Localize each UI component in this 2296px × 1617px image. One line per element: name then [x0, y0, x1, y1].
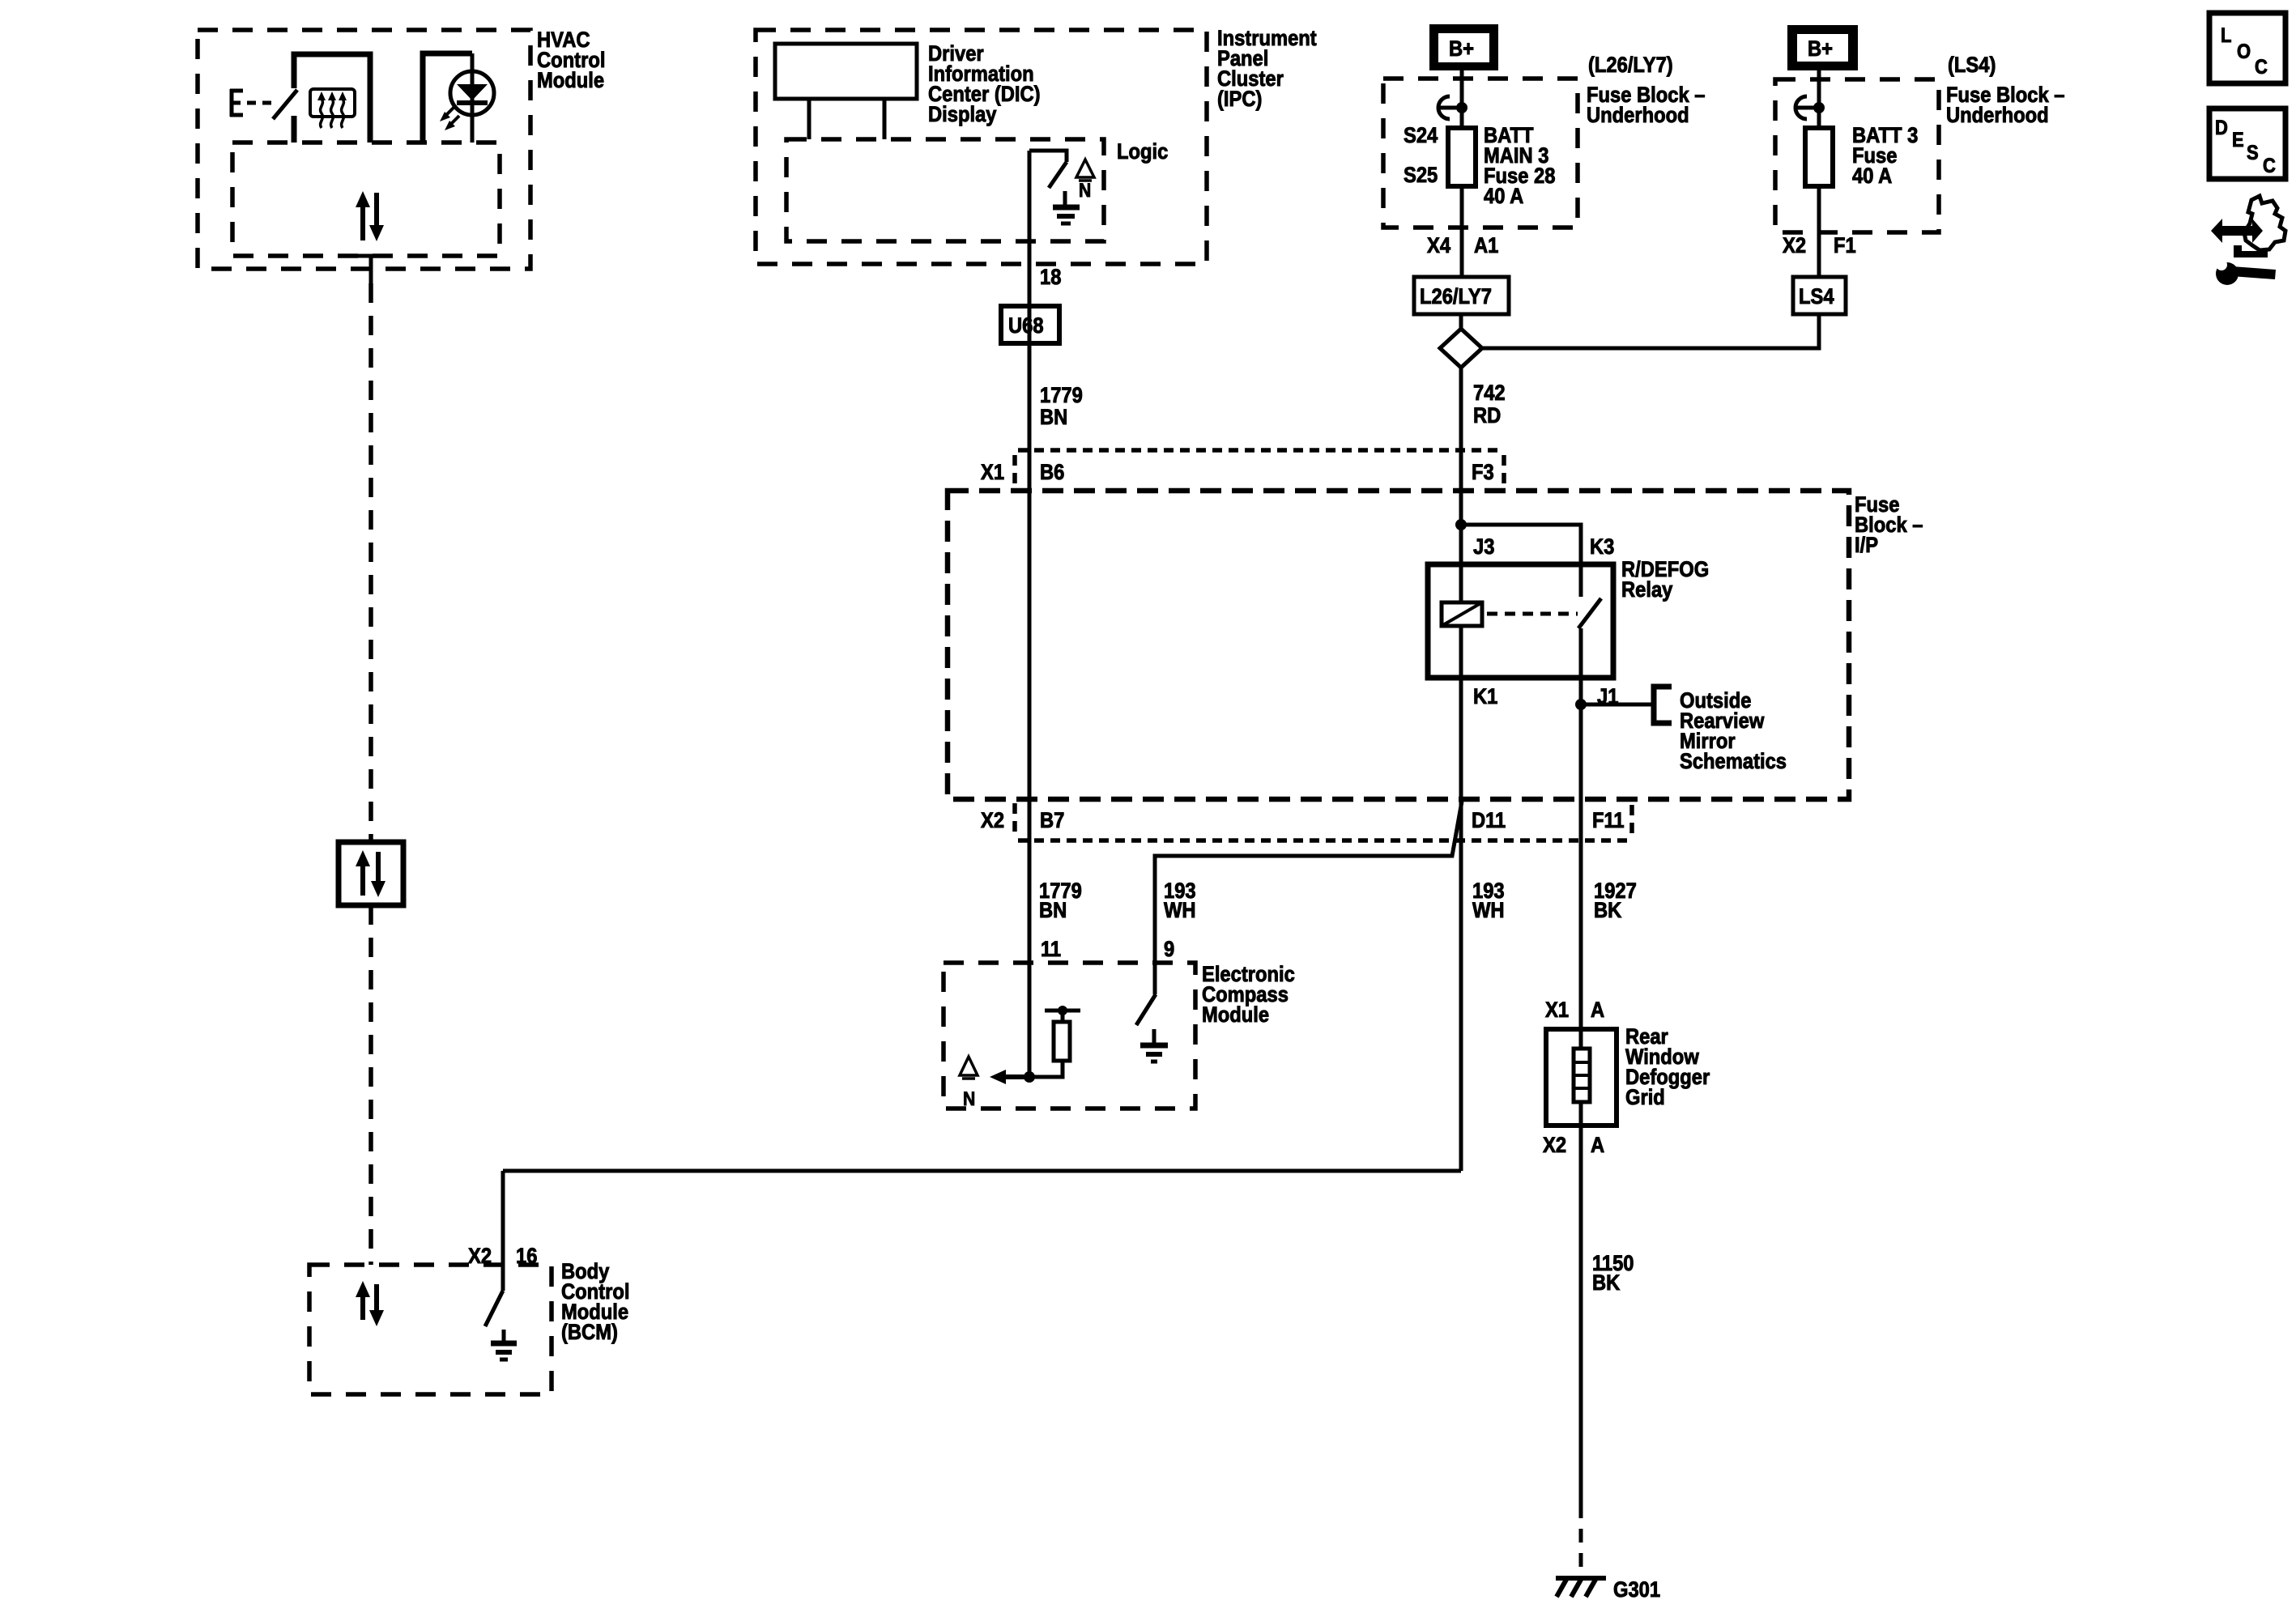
svg-text:D11: D11: [1472, 809, 1506, 833]
BCM switch blade: [485, 1291, 503, 1326]
connector clip S24: [1438, 96, 1467, 119]
label 742 RD: [1473, 381, 1506, 428]
svg-text:Grid: Grid: [1625, 1086, 1665, 1110]
resistor tap dot: [1058, 1006, 1067, 1015]
svg-text:Logic: Logic: [1117, 140, 1168, 164]
wire B+ to fuse (right): [1817, 70, 1821, 128]
B+ battery feed (left): [1429, 24, 1498, 70]
defogger switch terminal E: [230, 89, 243, 117]
svg-text:B7: B7: [1040, 809, 1064, 833]
connector tick right (F3): [1502, 455, 1506, 486]
service info icon arrow: [2211, 219, 2263, 243]
svg-text:Schematics: Schematics: [1680, 750, 1787, 774]
svg-text:F1: F1: [1834, 234, 1856, 258]
DIC display: [775, 44, 917, 99]
service info icon wrench: [2216, 259, 2276, 285]
connector LS4: [1793, 277, 1846, 314]
labels X2 16 (BCM): [468, 1245, 537, 1269]
svg-text:L26/LY7: L26/LY7: [1420, 285, 1492, 309]
svg-text:O: O: [2237, 40, 2251, 63]
svg-text:X2: X2: [1783, 234, 1806, 258]
Logic box: [786, 139, 1104, 241]
svg-text:(IPC): (IPC): [1217, 87, 1262, 112]
wire J1 lead 1927 BK: [1579, 628, 1583, 1049]
logic ground: [1053, 191, 1080, 223]
wire fuse to X4: [1460, 186, 1464, 277]
svg-text:L: L: [2221, 24, 2231, 47]
HVAC Control Module label: [537, 28, 605, 93]
LED light arrow 2: [445, 116, 459, 130]
fuse BATT MAIN 3: [1448, 128, 1476, 186]
LED diode triangle: [457, 84, 488, 100]
compass output arrow: [990, 1070, 1029, 1084]
label 1779 BN lower: [1039, 879, 1082, 923]
svg-text:X1: X1: [981, 461, 1004, 485]
wire 1779 BN: [1028, 151, 1032, 1077]
svg-text:Module: Module: [1202, 1003, 1269, 1028]
connector row X2/B7/D11/F11 fine dashed line: [1018, 838, 1632, 843]
svg-text:K3: K3: [1590, 535, 1614, 560]
label 193 WH (right): [1472, 879, 1505, 923]
wire fuse to X2 (right): [1817, 186, 1821, 277]
wire to mirror schematics: [1581, 703, 1653, 707]
Body Control Module box: [309, 1265, 552, 1394]
HVAC Control Module box: [198, 30, 530, 269]
svg-text:18: 18: [1040, 266, 1061, 290]
label 193 WH (left): [1164, 879, 1196, 923]
switch actuation dashes from E: [247, 101, 275, 105]
connector tick left (X2): [1012, 803, 1017, 836]
heat wavy arrow 1: [317, 91, 326, 128]
connector row X1/B6/F3 fine dashed line: [1018, 448, 1504, 453]
labels J3 K3: [1473, 535, 1614, 560]
Electronic Compass Module label: [1202, 963, 1295, 1028]
wire diamond to LS4: [1482, 314, 1819, 348]
svg-text:I/P: I/P: [1855, 534, 1878, 558]
svg-text:(L26/LY7): (L26/LY7): [1588, 53, 1673, 78]
svg-text:(LS4): (LS4): [1948, 53, 1996, 78]
wire B+ to fuse (left): [1460, 70, 1464, 128]
Rear Window Defogger Grid box: [1546, 1029, 1617, 1126]
svg-text:S25: S25: [1404, 164, 1438, 188]
label R/DEFOG Relay: [1621, 558, 1709, 602]
B+ battery feed (right): [1787, 25, 1858, 70]
BCM serial data arrows: [356, 1281, 384, 1326]
svg-text:Underhood: Underhood: [1946, 104, 2049, 128]
labels X1 B6 F3: [981, 461, 1494, 485]
svg-text:D: D: [2215, 117, 2228, 139]
svg-text:B6: B6: [1040, 461, 1064, 485]
label Fuse Block Underhood (left): [1587, 83, 1706, 128]
serial data wire dashed upper: [368, 283, 373, 842]
LED diode bar: [457, 100, 488, 105]
Electronic Compass Module box: [944, 963, 1195, 1108]
ground G301: [1556, 1578, 1606, 1597]
svg-text:E: E: [2232, 129, 2244, 151]
svg-text:C: C: [2263, 155, 2276, 177]
HVAC serial data arrows: [356, 191, 384, 241]
connector tick left (X1): [1012, 455, 1017, 486]
svg-text:B+: B+: [1808, 37, 1833, 62]
wire J3 to K3: [1461, 525, 1581, 597]
connector box arrows: [356, 850, 386, 897]
svg-text:B+: B+: [1449, 37, 1474, 62]
wire L26 to splice diamond: [1459, 314, 1463, 330]
svg-text:40 A: 40 A: [1484, 185, 1523, 209]
logic switch wiring: [1029, 151, 1067, 188]
label BATT MAIN 3 Fuse 28 40 A: [1484, 124, 1555, 209]
svg-text:C: C: [2255, 56, 2268, 79]
serial data wire dashed lower: [368, 905, 373, 1265]
svg-text:RD: RD: [1473, 404, 1501, 428]
grid heater element: [1574, 1049, 1590, 1102]
Fuse Block Underhood (right) box: [1775, 79, 1939, 232]
DIC display legs: [809, 99, 884, 139]
svg-text:Underhood: Underhood: [1587, 104, 1689, 128]
Fuse Block Underhood (left) box: [1383, 79, 1578, 228]
svg-text:Relay: Relay: [1621, 578, 1672, 602]
svg-text:11: 11: [1041, 938, 1061, 962]
svg-text:F11: F11: [1592, 809, 1625, 833]
junction dot compass: [1024, 1071, 1035, 1083]
wire 1150 BK dashed tail: [1579, 1504, 1583, 1569]
bottom wire to BCM: [503, 1171, 1461, 1291]
label 1150 BK: [1592, 1252, 1634, 1296]
label Rear Window Defogger Grid: [1625, 1025, 1710, 1110]
HVAC data stub: [357, 256, 384, 283]
labels X2 B7 D11 F11: [981, 809, 1625, 833]
off-page bracket: [1654, 687, 1672, 723]
svg-text:BN: BN: [1039, 899, 1067, 923]
svg-text:J3: J3: [1473, 535, 1494, 560]
LED wire: [471, 53, 475, 143]
defogger switch blade: [273, 90, 297, 119]
wire 742 RD: [1459, 368, 1463, 602]
R/DEFOG relay box: [1428, 564, 1613, 678]
label Fuse Block Underhood (right): [1946, 83, 2065, 128]
svg-text:K1: K1: [1473, 685, 1497, 709]
HVAC inner logic box: [232, 143, 500, 256]
svg-text:BN: BN: [1040, 406, 1067, 430]
wire grid to ground: [1579, 1102, 1583, 1504]
svg-text:S: S: [2247, 142, 2259, 164]
DIC label: [928, 42, 1041, 127]
svg-text:BK: BK: [1594, 899, 1622, 923]
relay actuation dashed link: [1487, 612, 1578, 616]
svg-text:1779: 1779: [1040, 384, 1083, 408]
relay switch blade: [1578, 598, 1601, 628]
connector L26/LY7: [1414, 277, 1509, 314]
svg-text:N: N: [1079, 180, 1091, 202]
north triangle (logic): [1076, 160, 1094, 201]
wire 193 WH branch jog to compass: [1155, 802, 1462, 994]
wire K1 lead (742 RD through coil to D11): [1459, 626, 1463, 1171]
svg-text:40 A: 40 A: [1852, 164, 1892, 189]
labels X1 A (grid top): [1545, 998, 1604, 1023]
labels X2 F1: [1783, 234, 1856, 258]
IPC label: [1217, 27, 1317, 112]
Fuse Block I/P box: [948, 491, 1849, 799]
heater enclosure stub: [292, 116, 297, 143]
connector U68: [1001, 306, 1059, 343]
compass resistor: [1054, 1022, 1070, 1061]
svg-text:Module: Module: [537, 69, 604, 93]
svg-text:9: 9: [1164, 938, 1174, 962]
svg-text:BK: BK: [1592, 1271, 1621, 1296]
Instrument Panel Cluster box: [756, 30, 1207, 264]
svg-text:F3: F3: [1472, 461, 1494, 485]
svg-text:X2: X2: [981, 809, 1004, 833]
svg-text:(BCM): (BCM): [561, 1321, 618, 1345]
heat wavy arrow 3: [339, 91, 347, 128]
LED indicator enclosure: [423, 53, 472, 143]
svg-text:N: N: [963, 1088, 975, 1110]
svg-text:X4: X4: [1427, 234, 1450, 258]
serial data connector box: [339, 842, 403, 905]
LED circle: [450, 71, 494, 115]
svg-text:742: 742: [1473, 381, 1506, 406]
svg-text:X2: X2: [1543, 1134, 1566, 1158]
BCM label: [561, 1260, 629, 1345]
junction node J1: [1575, 699, 1587, 710]
BCM ground: [491, 1330, 517, 1360]
fuse BATT 3: [1805, 128, 1833, 186]
svg-text:Display: Display: [928, 103, 996, 127]
svg-text:A: A: [1591, 998, 1604, 1023]
heater enclosure: [294, 54, 370, 143]
heat wavy arrow 2: [328, 91, 336, 128]
compass ground: [1140, 1029, 1168, 1062]
svg-text:WH: WH: [1164, 899, 1196, 923]
LOC icon: [2209, 13, 2285, 83]
labels K1 J1: [1473, 685, 1618, 709]
label 1779 BN upper: [1040, 384, 1083, 430]
service info icon bracket: [2234, 245, 2268, 257]
label Fuse Block I/P: [1855, 493, 1923, 558]
connector clip (right): [1795, 96, 1825, 119]
label Outside Rearview Mirror Schematics: [1680, 689, 1787, 774]
resistor bottom lead: [1029, 1061, 1063, 1077]
label BATT 3 Fuse 40 A: [1852, 124, 1918, 189]
connector tick right (F11): [1629, 805, 1634, 836]
labels X4 A1: [1427, 234, 1498, 258]
junction node J3: [1455, 519, 1467, 530]
north triangle (compass): [960, 1057, 978, 1109]
resistor top tap: [1045, 1011, 1080, 1022]
svg-text:U68: U68: [1008, 314, 1044, 338]
labels X2 A (grid bottom): [1543, 1134, 1604, 1158]
svg-text:A1: A1: [1474, 234, 1498, 258]
relay coil: [1442, 602, 1482, 626]
LED light arrow 1: [440, 107, 454, 121]
svg-text:LS4: LS4: [1799, 285, 1834, 309]
svg-text:A: A: [1591, 1134, 1604, 1158]
splice diamond: [1440, 329, 1482, 368]
service info icon mitt: [2244, 196, 2285, 250]
svg-text:X1: X1: [1545, 998, 1569, 1023]
svg-text:WH: WH: [1472, 899, 1505, 923]
DESC icon: [2209, 109, 2285, 179]
heater element box: [310, 89, 355, 117]
svg-text:S24: S24: [1404, 124, 1438, 148]
svg-text:G301: G301: [1613, 1578, 1660, 1602]
labels S24 S25: [1404, 124, 1438, 188]
label 1927 BK: [1594, 879, 1637, 923]
compass switch blade: [1136, 994, 1156, 1025]
